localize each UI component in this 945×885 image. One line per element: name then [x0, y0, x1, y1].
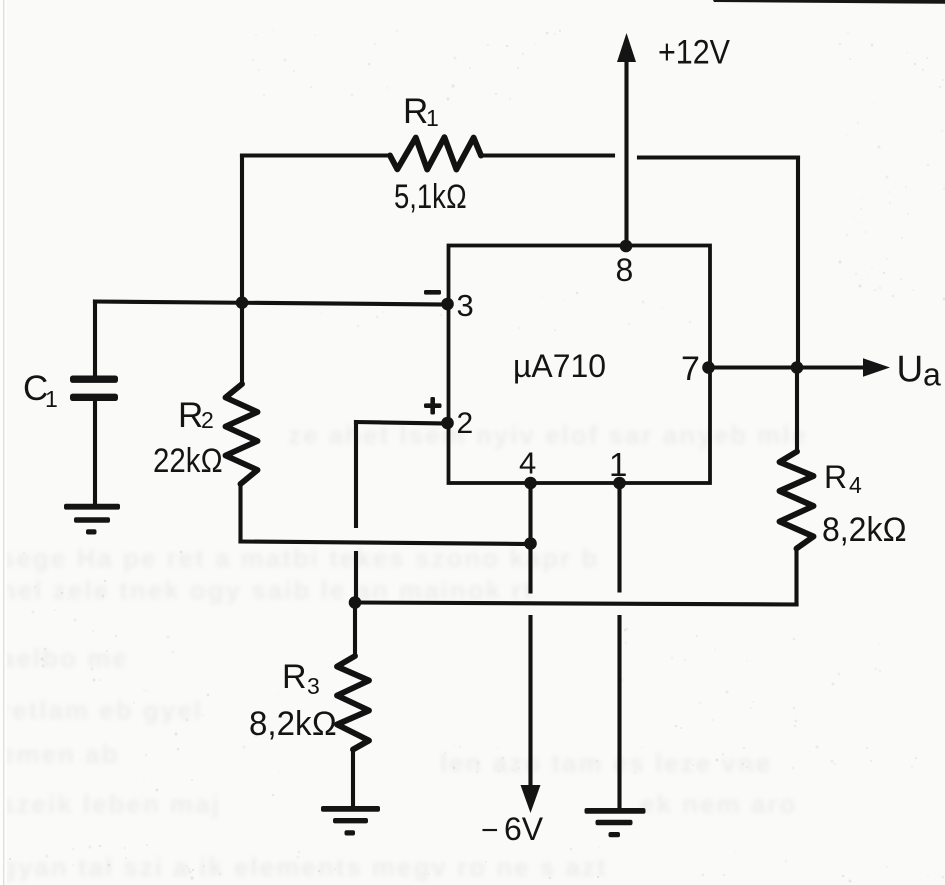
svg-text:6V: 6V — [504, 811, 544, 847]
svg-text:22kΩ: 22kΩ — [153, 442, 223, 480]
svg-text:+12V: +12V — [658, 34, 730, 72]
svg-text:1: 1 — [45, 386, 58, 412]
svg-text:2: 2 — [457, 407, 474, 440]
svg-text:R: R — [824, 459, 847, 495]
svg-text:R: R — [178, 396, 203, 435]
svg-text:7: 7 — [681, 350, 700, 388]
svg-text:1: 1 — [609, 446, 627, 483]
svg-text:8,2kΩ: 8,2kΩ — [822, 511, 907, 549]
svg-text:4: 4 — [849, 472, 862, 498]
svg-text:U: U — [897, 349, 924, 390]
svg-text:3: 3 — [457, 288, 474, 323]
svg-text:8: 8 — [616, 252, 634, 288]
svg-text:1: 1 — [426, 105, 439, 131]
svg-text:8,2kΩ: 8,2kΩ — [249, 705, 337, 743]
svg-text:µA710: µA710 — [513, 348, 606, 384]
svg-text:R: R — [282, 658, 307, 696]
svg-text:3: 3 — [307, 673, 320, 699]
svg-text:5,1kΩ: 5,1kΩ — [394, 178, 467, 216]
svg-text:R: R — [403, 92, 428, 131]
svg-text:2: 2 — [201, 407, 214, 433]
svg-text:−: − — [481, 814, 499, 847]
svg-text:a: a — [923, 357, 941, 393]
svg-text:4: 4 — [519, 446, 536, 481]
